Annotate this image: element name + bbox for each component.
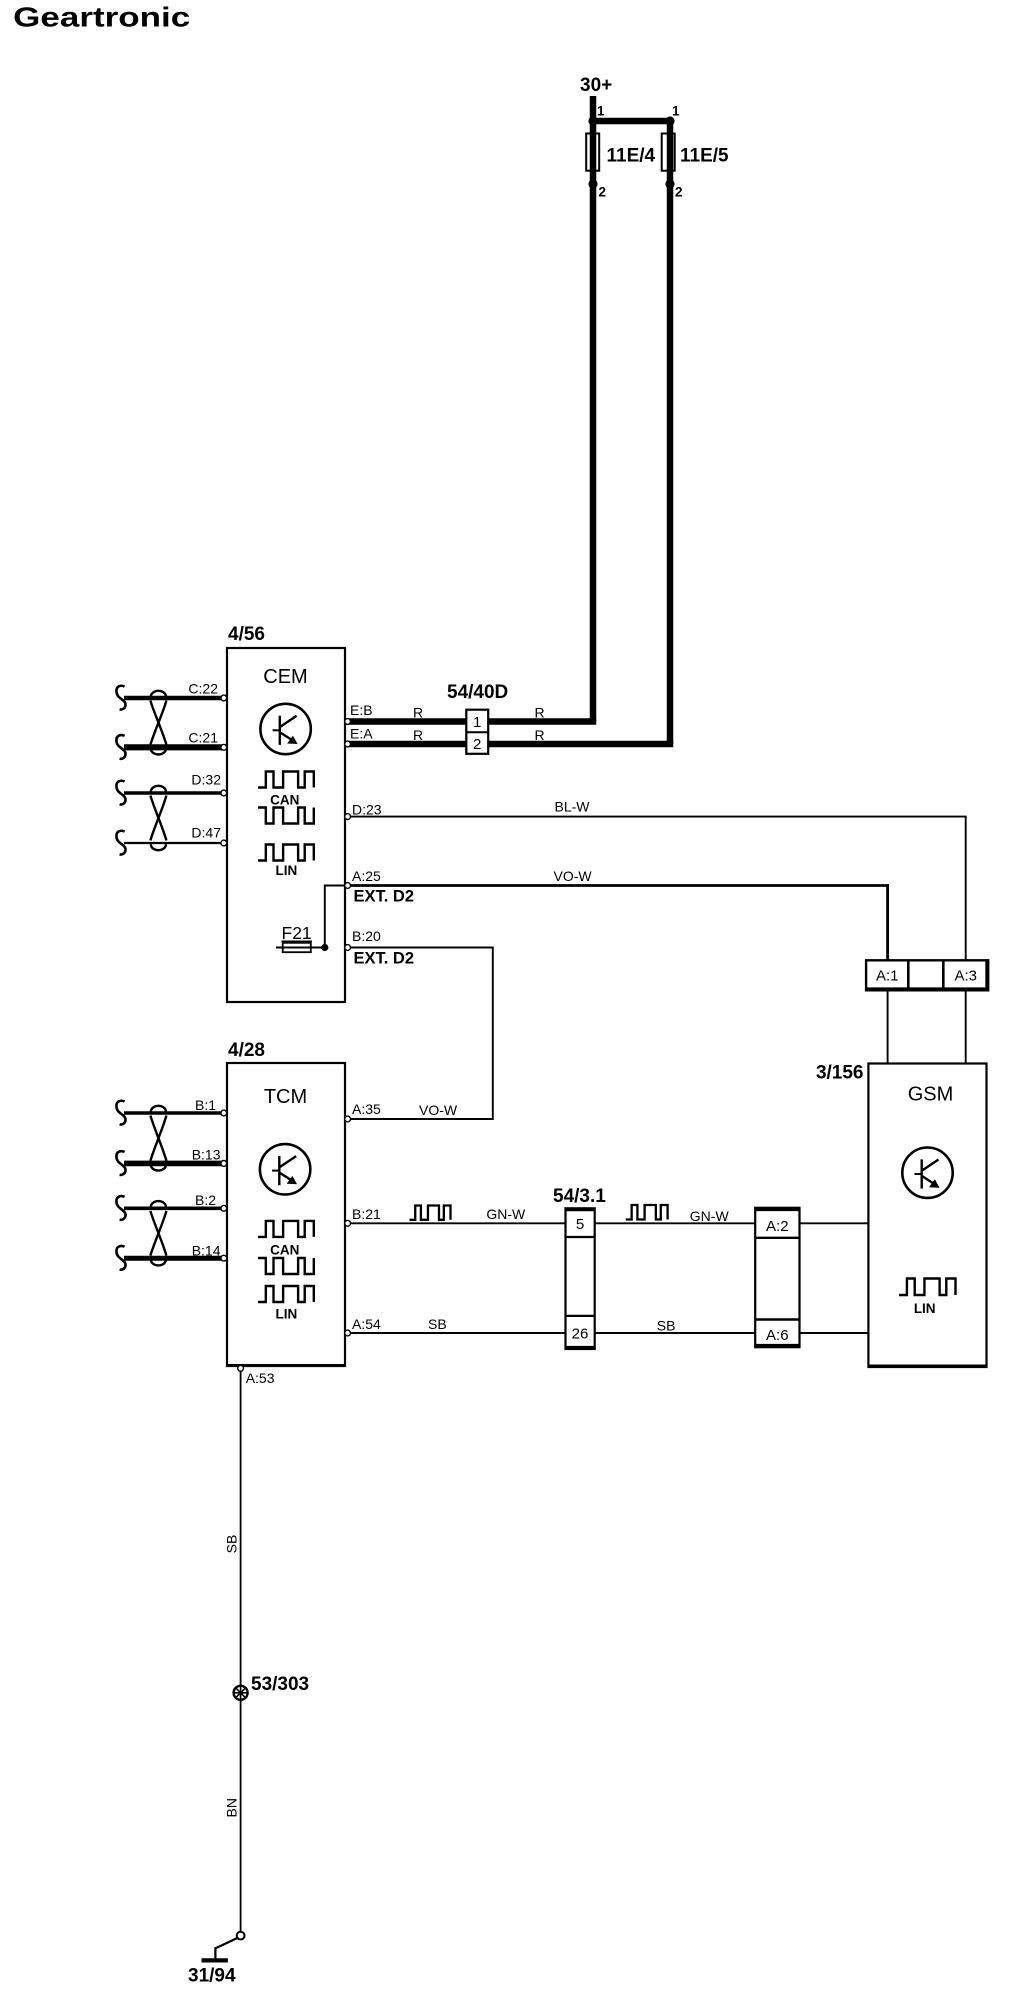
wire E:A to fuse 11E/5 (R) <box>345 741 673 748</box>
wire label SB (mid) <box>657 1318 676 1334</box>
wire label GN-W (B:21) <box>486 1206 526 1222</box>
svg-text:R: R <box>535 705 545 721</box>
junction pin 1 (11E/4) <box>588 104 605 126</box>
svg-text:D:32: D:32 <box>191 772 221 788</box>
svg-text:1: 1 <box>597 104 605 119</box>
power source 30+ label <box>580 75 612 96</box>
svg-text:30+: 30+ <box>580 75 612 96</box>
svg-text:GSM: GSM <box>908 1084 954 1106</box>
wire label BN (rotated) <box>224 1798 240 1817</box>
svg-text:E:B: E:B <box>350 702 373 718</box>
pulse signal icon (B:21 wire) <box>410 1206 451 1220</box>
svg-text:SB: SB <box>428 1316 447 1332</box>
svg-text:BL-W: BL-W <box>555 799 591 815</box>
svg-text:CAN: CAN <box>270 1243 299 1258</box>
wire label R (E:A left) <box>413 727 423 743</box>
svg-text:11E/5: 11E/5 <box>680 146 729 167</box>
fuse 11E/5 <box>662 134 729 171</box>
CAN bus icon (CEM) <box>258 772 314 824</box>
twisted pair symbol B:2/B:14 <box>150 1201 166 1265</box>
fuse F21 (CEM internal) <box>276 923 325 952</box>
svg-text:B:13: B:13 <box>192 1147 221 1163</box>
svg-text:A:3: A:3 <box>954 968 977 985</box>
twisted pair symbol D:32/D:47 <box>150 786 166 850</box>
wire A:25 VO-W to GSM A:1 <box>345 886 888 962</box>
svg-text:Geartronic: Geartronic <box>13 2 190 33</box>
wire A:3 connector to GSM <box>965 990 967 1063</box>
pulse signal icon (GN-W mid wire) <box>626 1205 668 1220</box>
pin B:2 (TCM) <box>195 1192 227 1211</box>
LIN bus icon (GSM) <box>899 1279 956 1317</box>
svg-text:B:21: B:21 <box>352 1206 381 1222</box>
wire break (B:2) <box>116 1196 125 1220</box>
svg-text:CEM: CEM <box>263 666 307 688</box>
svg-text:GN-W: GN-W <box>690 1208 730 1224</box>
svg-text:A:25: A:25 <box>352 868 381 884</box>
wire label VO-W (A:25) <box>554 868 593 884</box>
svg-text:B:2: B:2 <box>195 1192 216 1208</box>
wire D:23 BL-W to GSM A:3 <box>345 817 966 961</box>
pin E:A (CEM) <box>345 726 374 747</box>
ground lead diagonal <box>215 1938 237 1948</box>
svg-text:A:2: A:2 <box>766 1218 789 1235</box>
pin C:21 (CEM) <box>188 730 226 751</box>
wire break (D:32) <box>116 781 125 805</box>
svg-text:SB: SB <box>657 1318 676 1334</box>
wire B:2 (TCM input) <box>124 1207 227 1211</box>
ground lead vertical <box>214 1947 216 1959</box>
svg-text:2: 2 <box>675 184 683 199</box>
twisted pair symbol C:22/C:21 <box>150 691 166 755</box>
svg-text:2: 2 <box>599 184 607 199</box>
wire C:22 (CEM input) <box>124 696 227 700</box>
svg-text:B:14: B:14 <box>192 1243 221 1259</box>
wire B:1 (TCM input) <box>124 1111 227 1115</box>
wire break (C:21) <box>116 735 125 759</box>
pin B:1 (TCM) <box>195 1097 227 1116</box>
svg-text:54/3.1: 54/3.1 <box>553 1186 606 1207</box>
svg-text:F21: F21 <box>282 923 312 943</box>
title Geartronic <box>13 2 190 33</box>
pin A:25 (CEM) <box>345 868 381 888</box>
wire B:13 (TCM input) <box>124 1161 227 1167</box>
svg-text:1: 1 <box>672 103 680 118</box>
pin A:53 (TCM) <box>238 1365 275 1386</box>
svg-text:R: R <box>413 705 423 721</box>
svg-text:A:1: A:1 <box>876 968 899 985</box>
wire label R (E:B right) <box>535 705 545 721</box>
CAN bus icon (TCM) <box>258 1221 314 1274</box>
pin D:32 (CEM) <box>191 772 226 796</box>
wire fuse 11E/5 vertical <box>667 121 674 744</box>
ground label 31/94 <box>188 1966 236 1987</box>
svg-text:A:35: A:35 <box>352 1101 381 1117</box>
pin D:47 (CEM) <box>191 825 226 846</box>
pin B:21 (TCM) <box>345 1206 381 1226</box>
pin D:23 (CEM) <box>345 802 382 820</box>
svg-text:LIN: LIN <box>276 863 298 878</box>
fuse 11E/4 <box>586 134 655 171</box>
wire label SB (A:54) <box>428 1316 447 1332</box>
ground bar <box>202 1958 228 1962</box>
module GSM bottom border <box>868 1364 986 1367</box>
svg-text:C:21: C:21 <box>188 730 218 746</box>
svg-text:VO-W: VO-W <box>419 1102 458 1118</box>
svg-text:3/156: 3/156 <box>816 1063 864 1084</box>
pin C:22 (CEM) <box>188 681 226 701</box>
svg-text:26: 26 <box>572 1326 589 1343</box>
wire break (C:22) <box>116 686 125 710</box>
wire C:21 (CEM input) <box>124 744 227 750</box>
net label EXT. D2 (A:25) <box>354 888 415 906</box>
svg-text:TCM: TCM <box>264 1086 307 1108</box>
LIN bus icon (CEM) <box>258 845 314 879</box>
control module GSM 3/156 box <box>816 1063 987 1368</box>
svg-text:SB: SB <box>224 1535 240 1554</box>
svg-text:2: 2 <box>473 736 481 753</box>
transistor icon (TCM) <box>260 1144 310 1194</box>
wire label R (E:A right) <box>535 727 545 743</box>
transistor icon (CEM) <box>260 704 310 754</box>
transistor icon (GSM) <box>902 1148 952 1198</box>
svg-text:C:22: C:22 <box>188 681 218 697</box>
splice 53/303 <box>234 1674 310 1700</box>
svg-text:R: R <box>535 727 545 743</box>
junction pin 2 (11E/4) <box>588 179 606 199</box>
control module TCM 4/28 box <box>227 1040 345 1366</box>
junction pin 2 (11E/5) <box>665 179 682 199</box>
net label EXT. D2 (B:20) <box>354 950 415 968</box>
LIN bus icon (TCM) <box>258 1286 314 1322</box>
wire label GN-W (mid) <box>690 1208 730 1224</box>
svg-text:4/56: 4/56 <box>228 624 265 645</box>
svg-text:A:53: A:53 <box>246 1370 275 1386</box>
svg-text:53/303: 53/303 <box>251 1674 309 1695</box>
svg-text:GN-W: GN-W <box>486 1206 526 1222</box>
svg-text:A:6: A:6 <box>766 1327 789 1344</box>
svg-text:4/28: 4/28 <box>228 1040 265 1061</box>
junction pin 1 (11E/5) <box>665 103 680 125</box>
svg-text:5: 5 <box>576 1216 584 1233</box>
pin B:13 (TCM) <box>192 1147 227 1167</box>
wire break (B:1) <box>116 1101 125 1125</box>
svg-text:11E/4: 11E/4 <box>607 146 656 167</box>
control module CEM 4/56 box <box>227 624 345 1002</box>
wire A:53 SB/BN to ground <box>240 1366 242 1932</box>
svg-text:A:54: A:54 <box>352 1316 381 1332</box>
wire break (D:47) <box>116 831 125 855</box>
wire E:B to fuse 11E/4 (R) <box>345 718 596 725</box>
connector A:1/blank/A:3 (GSM) <box>866 960 988 990</box>
wire F21 junction to pin A:25 <box>325 886 345 948</box>
junction (F21 to A:25/B:20) <box>321 944 328 951</box>
svg-text:54/40D: 54/40D <box>447 682 508 703</box>
connector A:2/A:6 <box>755 1208 799 1347</box>
svg-text:D:47: D:47 <box>191 825 221 841</box>
wire label SB (A:53 wire, rotated) <box>224 1535 240 1554</box>
svg-text:BN: BN <box>224 1798 240 1817</box>
pin B:20 (CEM) <box>345 928 381 950</box>
svg-text:EXT. D2: EXT. D2 <box>354 888 415 906</box>
connector 54/40D <box>447 682 508 754</box>
twisted pair symbol B:1/B:13 <box>150 1106 166 1171</box>
svg-text:EXT. D2: EXT. D2 <box>354 950 415 968</box>
module TCM bottom border <box>227 1364 345 1367</box>
ground terminal circle <box>237 1932 245 1940</box>
svg-text:VO-W: VO-W <box>554 868 593 884</box>
pin B:14 (TCM) <box>192 1243 227 1262</box>
svg-text:E:A: E:A <box>350 726 373 742</box>
wire B:14 (TCM input) <box>124 1256 227 1261</box>
wire 30+ feed / fuse 11E/4 vertical <box>590 96 597 722</box>
wire label BL-W (D:23) <box>555 799 591 815</box>
svg-text:31/94: 31/94 <box>188 1966 236 1987</box>
wire A:54 SB to GSM A:6 <box>345 1332 868 1334</box>
pin E:B (CEM) <box>345 702 373 724</box>
svg-text:B:1: B:1 <box>195 1097 216 1113</box>
wire label VO-W (A:35) <box>419 1102 458 1118</box>
svg-text:B:20: B:20 <box>352 928 381 944</box>
svg-text:1: 1 <box>473 714 481 731</box>
wire label R (E:B left) <box>413 705 423 721</box>
wire D:47 (CEM input) <box>124 842 227 844</box>
connector 54/3.1 <box>553 1186 606 1349</box>
svg-text:D:23: D:23 <box>352 802 382 818</box>
svg-text:LIN: LIN <box>276 1307 298 1322</box>
wire B:21 GN-W to GSM A:2 <box>345 1222 868 1224</box>
wire break (B:14) <box>116 1246 125 1270</box>
svg-text:CAN: CAN <box>270 793 299 808</box>
wire break (B:13) <box>116 1151 125 1175</box>
wire D:32 (CEM input) <box>124 791 227 795</box>
wire A:1 connector to GSM <box>887 990 889 1063</box>
pin A:54 (TCM) <box>345 1316 381 1336</box>
svg-text:R: R <box>413 727 423 743</box>
svg-text:LIN: LIN <box>914 1301 936 1316</box>
wire 30+ bus horizontal <box>590 118 673 125</box>
wire B:20 EXT. D2 to TCM A:35 <box>345 948 493 1120</box>
pin A:35 (TCM) <box>345 1101 381 1122</box>
